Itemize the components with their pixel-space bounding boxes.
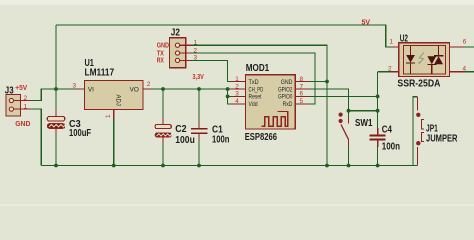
- svg-text:2: 2: [194, 47, 198, 54]
- node C3 bus junction: [54, 164, 58, 168]
- wire switch node branch to C4 node: [349, 110, 378, 112]
- regulator U1 LM1117: [78, 81, 151, 120]
- svg-text:J2: J2: [171, 27, 181, 38]
- node +5V/VI junction: [54, 87, 58, 91]
- wire GPIO2 to switch node: [309, 89, 349, 117]
- node C4 bus junction: [376, 164, 380, 168]
- wire C3 bottom to ground bus: [55, 128, 57, 165]
- wire J3 pin1 down to bus: [31, 109, 42, 165]
- node C4 branch junction: [376, 109, 380, 113]
- wire SSR pin2 horizontal: [378, 71, 392, 73]
- wire +5V vertical to VI node: [55, 25, 57, 116]
- wire J3 pin2 jog to +5V node: [31, 89, 56, 101]
- svg-text:6: 6: [300, 91, 304, 98]
- svg-text:GPIO2: GPIO2: [278, 86, 293, 93]
- wire C4 bottom to bus: [377, 141, 379, 166]
- connector J3: [6, 95, 31, 116]
- node GPIO0 junction: [376, 95, 380, 99]
- node 3.3V branch junction: [226, 87, 230, 91]
- module MOD1 ESP8266: [231, 75, 309, 129]
- wire ESP GND row to GND net: [309, 81, 327, 83]
- wire VI feed: [56, 88, 78, 90]
- svg-text:SW1: SW1: [355, 118, 373, 129]
- node C1 bus junction: [197, 164, 201, 168]
- svg-text:GND: GND: [281, 79, 293, 86]
- svg-text:SSR-25DA: SSR-25DA: [397, 78, 440, 89]
- wire SW1 bottom to bus: [348, 146, 350, 166]
- svg-text:3,3V: 3,3V: [193, 72, 204, 81]
- node GND bus junction: [325, 164, 329, 168]
- svg-text:1: 1: [235, 76, 239, 83]
- svg-text:C4: C4: [382, 124, 393, 135]
- wire C2 bottom to bus: [162, 137, 164, 165]
- connector J2: [170, 38, 192, 68]
- node ADJ bus junction: [112, 164, 116, 168]
- node SW bus junction: [347, 164, 351, 168]
- svg-text:VI: VI: [88, 86, 94, 93]
- svg-text:RX: RX: [157, 56, 164, 65]
- capacitor C1: [191, 121, 208, 141]
- wire GND from J2 down to bus: [191, 45, 327, 165]
- wire 3.3V rail VO to CH_PD: [151, 88, 231, 90]
- svg-text:4: 4: [235, 98, 239, 105]
- capacitor C4: [369, 128, 385, 147]
- wire GPIO0 to C4 node: [309, 95, 378, 97]
- node C2 bus junction: [161, 164, 165, 168]
- svg-text:ESP8266: ESP8266: [245, 132, 278, 143]
- svg-text:2: 2: [24, 95, 28, 102]
- wire TX from J2 to ESP RxD: [191, 53, 315, 104]
- wire C2 tap: [162, 89, 164, 124]
- wire C1 bottom to bus: [198, 135, 200, 166]
- svg-text:2: 2: [147, 81, 151, 88]
- svg-text:JUMPER: JUMPER: [426, 133, 458, 144]
- svg-text:1: 1: [105, 114, 112, 118]
- svg-text:1: 1: [194, 40, 198, 47]
- svg-text:3: 3: [235, 91, 239, 98]
- svg-text:100u: 100u: [175, 135, 195, 146]
- svg-text:MOD1: MOD1: [246, 63, 270, 74]
- svg-text:100uF: 100uF: [69, 128, 91, 139]
- node SW branch junction: [347, 109, 351, 113]
- wire SSR pin2 down to C4: [377, 72, 379, 135]
- wire SSR pin4 out: [463, 71, 474, 73]
- svg-text:Reset: Reset: [249, 94, 262, 101]
- node ESP GND junction: [325, 80, 329, 84]
- node C2 rail junction: [161, 87, 165, 91]
- svg-text:LM1117: LM1117: [85, 67, 115, 78]
- wire SSR pin6 out: [463, 46, 474, 48]
- svg-text:GPIO0: GPIO0: [278, 94, 293, 101]
- wire RX from J2 to ESP TxD: [191, 60, 230, 81]
- wire ground bus: [41, 165, 417, 167]
- svg-text:GND: GND: [15, 119, 30, 128]
- svg-text:3: 3: [73, 82, 77, 89]
- svg-text:VO: VO: [130, 86, 139, 93]
- capacitor C3: [47, 110, 66, 134]
- svg-text:100n: 100n: [382, 142, 400, 153]
- svg-text:8: 8: [300, 76, 304, 83]
- capacitor C2: [155, 118, 172, 143]
- svg-text:U2: U2: [400, 33, 409, 44]
- svg-text:1: 1: [24, 103, 28, 110]
- svg-text:3: 3: [194, 55, 198, 62]
- svg-text:5V: 5V: [362, 18, 371, 27]
- svg-text:6: 6: [463, 38, 467, 45]
- svg-text:1: 1: [390, 38, 394, 45]
- svg-text:4: 4: [463, 65, 467, 72]
- svg-text:+5V: +5V: [15, 83, 27, 92]
- node Reset branch junction: [226, 95, 230, 99]
- node C1 rail junction: [197, 87, 201, 91]
- svg-text:CH_PD: CH_PD: [249, 86, 264, 93]
- svg-text:TxD: TxD: [249, 79, 259, 86]
- wire 3.3V branch to Reset and Vdd: [228, 89, 231, 104]
- svg-text:7: 7: [300, 83, 304, 90]
- svg-text:2: 2: [235, 83, 239, 90]
- wire C1 tap: [198, 89, 200, 128]
- switch SW1: [339, 113, 349, 146]
- svg-text:5: 5: [300, 98, 304, 105]
- svg-text:RxD: RxD: [283, 101, 293, 108]
- svg-text:100n: 100n: [212, 135, 229, 146]
- svg-text:J3: J3: [5, 85, 14, 96]
- wire 5V rail top: [56, 25, 392, 47]
- jumper JP1: [416, 97, 424, 166]
- svg-text:ADJ: ADJ: [115, 95, 121, 106]
- svg-text:C2: C2: [175, 124, 187, 135]
- svg-text:2: 2: [388, 65, 392, 72]
- wire Reset tap: [228, 95, 231, 97]
- wire U1 ADJ to bus: [113, 119, 115, 166]
- relay U2 SSR-25DA: [392, 43, 464, 77]
- wire JP1 loop: [413, 97, 418, 166]
- svg-text:Vdd: Vdd: [249, 101, 258, 108]
